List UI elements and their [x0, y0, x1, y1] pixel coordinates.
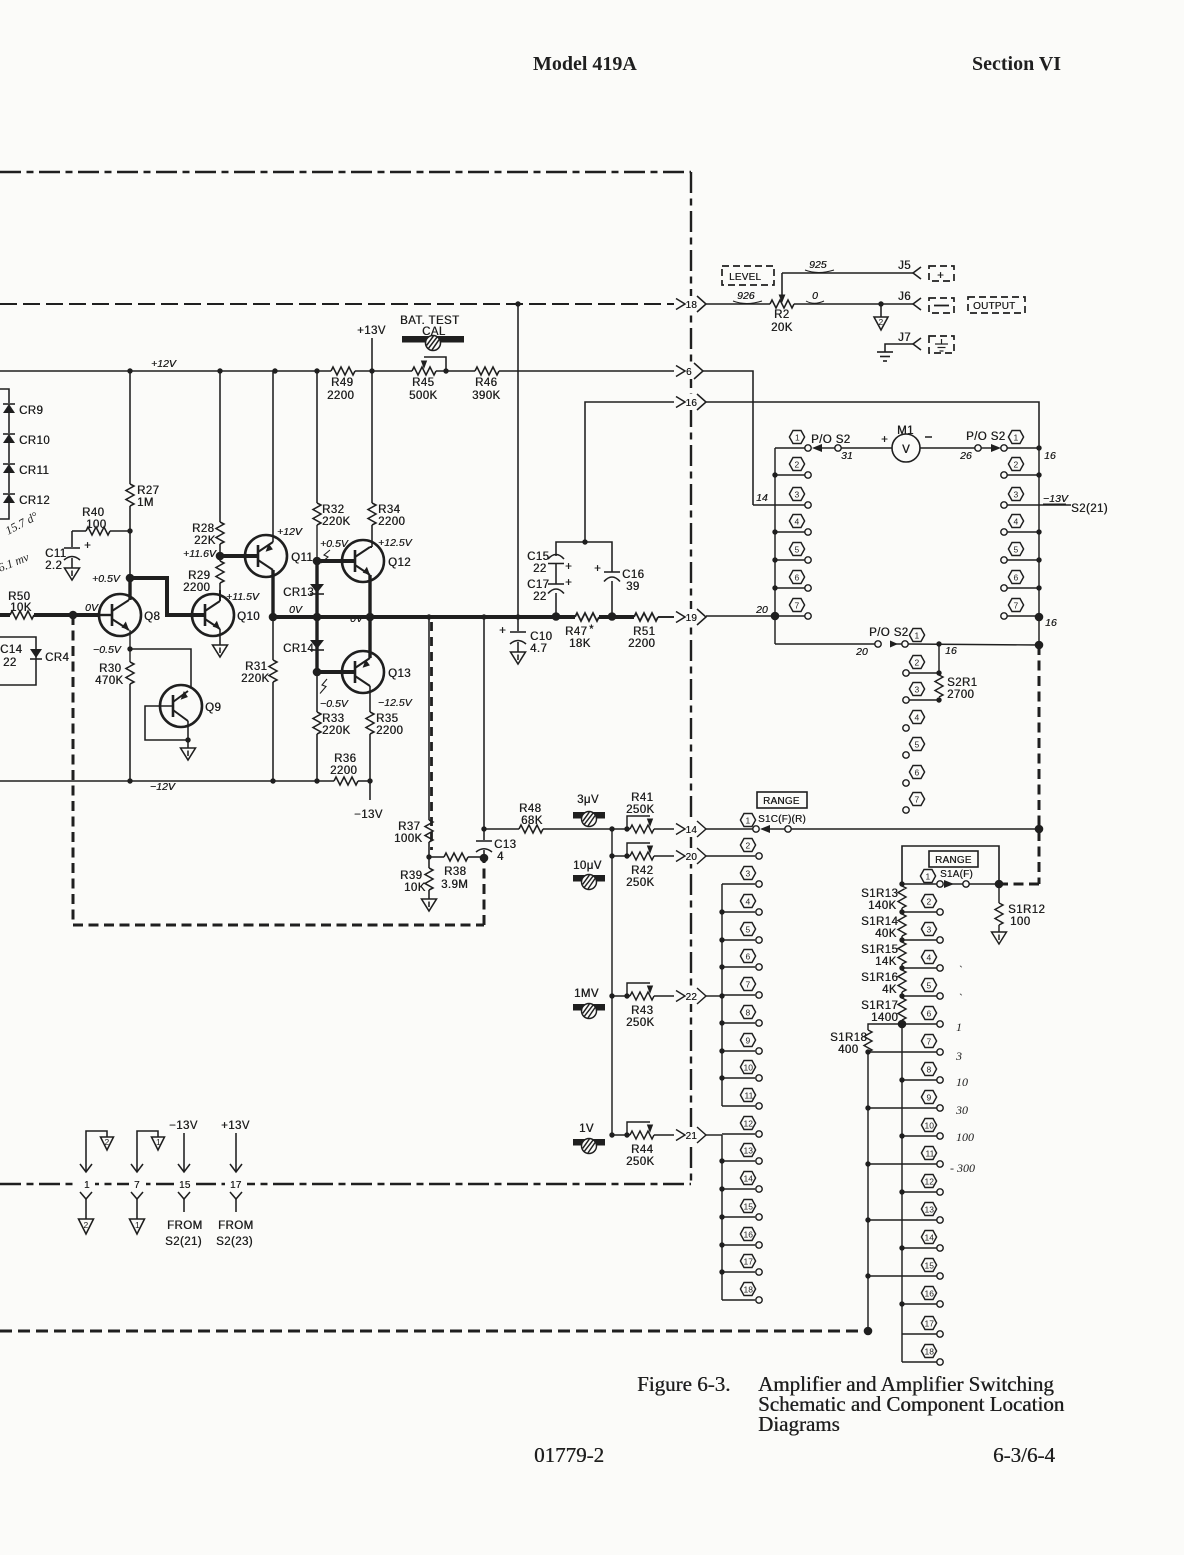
rail junction dots: [127, 368, 132, 373]
svg-text:2: 2: [105, 1137, 110, 1147]
svg-text:R34: R34: [378, 504, 401, 516]
connector 21: [676, 1127, 708, 1143]
svg-text:R28: R28: [192, 523, 214, 535]
svg-text:+13V: +13V: [357, 325, 386, 337]
row 16: [719, 1242, 724, 1247]
svg-text:+: +: [937, 270, 944, 282]
svg-text:+11.5V: +11.5V: [226, 591, 260, 603]
svg-text:+: +: [565, 577, 572, 589]
svg-text:4: 4: [915, 713, 920, 723]
svg-text:R51: R51: [633, 626, 655, 638]
ground: [422, 899, 437, 911]
row1 wire left: [775, 447, 805, 449]
svg-text:M1: M1: [897, 425, 914, 437]
connector 6: [676, 363, 708, 379]
svg-text:13: 13: [925, 1205, 935, 1215]
wiper arrow right: [981, 447, 992, 449]
svg-text:15: 15: [179, 1180, 191, 1191]
svg-text:17: 17: [230, 1180, 242, 1191]
node at 518,304: [515, 301, 520, 306]
svg-text:3: 3: [795, 490, 800, 500]
svg-text:30: 30: [955, 1103, 968, 1117]
svg-text:+: +: [881, 434, 888, 446]
wire conn18 to R2: [706, 303, 770, 305]
svg-text:4K: 4K: [882, 984, 897, 996]
wire thick Q8 collector to Q10 base: [130, 578, 184, 615]
svg-text:R44: R44: [631, 1144, 654, 1156]
svg-text:Q13: Q13: [388, 668, 411, 680]
resistor R47* 18K: [575, 613, 599, 621]
row 1 wiper: [706, 828, 753, 830]
svg-text:6: 6: [1014, 573, 1019, 583]
svg-text:16: 16: [1044, 450, 1056, 462]
row 5: [1001, 557, 1007, 563]
capacitor C13 4: [476, 840, 492, 842]
row 3 wire 14 from conn6: [753, 504, 805, 506]
svg-text:5: 5: [746, 925, 751, 935]
row 2: [706, 855, 755, 857]
svg-text:−13V: −13V: [1043, 493, 1069, 505]
svg-text:140K: 140K: [868, 900, 896, 912]
svg-text:3: 3: [955, 1049, 962, 1063]
bank vertical x=902 rows 6-18: [901, 1024, 903, 1362]
connector 19: [676, 609, 708, 625]
svg-text:925: 925: [809, 259, 827, 271]
wire: [0, 503, 9, 519]
row 5: [899, 993, 904, 998]
svg-text:Diagrams: Diagrams: [758, 1412, 840, 1436]
node Q12 base: [313, 557, 322, 566]
resistor S1R14 40K: [898, 914, 906, 936]
svg-text:390K: 390K: [472, 390, 500, 402]
svg-text:16: 16: [1045, 617, 1057, 629]
feedback loop wire: [145, 706, 188, 740]
terminal 7: [129, 1176, 146, 1191]
svg-text:4: 4: [497, 851, 504, 863]
transistor Q12: [342, 540, 384, 582]
svg-text:5: 5: [915, 740, 920, 750]
svg-text:22: 22: [533, 563, 547, 575]
svg-text:S2R1: S2R1: [947, 677, 977, 689]
Q11 emitter thick down to 0V bus: [271, 570, 274, 617]
resistor R50 10K: [8, 591, 32, 614]
svg-text:13: 13: [744, 1146, 754, 1156]
svg-text:Section VI: Section VI: [972, 53, 1061, 75]
svg-text:20: 20: [855, 646, 868, 658]
svg-text:100K: 100K: [394, 833, 422, 845]
resistor R30 470K: [126, 662, 134, 684]
resistor R48 68K: [484, 828, 519, 830]
svg-text:3: 3: [927, 925, 932, 935]
svg-text:17: 17: [925, 1319, 935, 1329]
svg-text:20: 20: [686, 852, 698, 863]
svg-text:C14: C14: [0, 644, 23, 656]
svg-text:10: 10: [925, 1121, 935, 1131]
svg-text:S1A(F): S1A(F): [940, 869, 973, 880]
svg-text:Q10: Q10: [237, 611, 260, 623]
svg-text:2.2: 2.2: [45, 560, 62, 572]
svg-text:S2(23): S2(23): [216, 1236, 253, 1248]
node +11.6V: [216, 552, 225, 561]
svg-text:6: 6: [927, 1009, 932, 1019]
wire dashed to conn 18: [0, 303, 674, 305]
row 8: [719, 1020, 724, 1025]
row 7: [1001, 613, 1007, 619]
svg-text:−13V: −13V: [354, 809, 383, 821]
svg-text:2200: 2200: [378, 516, 405, 528]
contact row 2: [909, 672, 939, 674]
row 3 wire -13V S2(21): [1001, 502, 1007, 508]
svg-text:18: 18: [744, 1285, 754, 1295]
svg-text:+: +: [594, 563, 601, 575]
svg-text:2: 2: [927, 897, 932, 907]
resistor R36 2200: [334, 777, 358, 785]
floating contacts 4-7: [903, 725, 909, 731]
capacitors C15/C17: [582, 539, 587, 544]
diode CR11: [3, 463, 15, 465]
svg-text:+: +: [499, 625, 506, 637]
svg-text:R32: R32: [322, 504, 344, 516]
svg-text:0: 0: [812, 290, 818, 302]
resistor R31 220K: [272, 617, 274, 660]
R46 390K: [475, 367, 499, 375]
svg-text:1MV: 1MV: [574, 988, 599, 1000]
row 7: [771, 612, 780, 621]
svg-text:R43: R43: [631, 1005, 653, 1017]
resistor R32 220K: [316, 371, 318, 503]
svg-text:R45: R45: [412, 377, 434, 389]
svg-text:−12V: −12V: [150, 781, 176, 793]
trimmer 3uV: [577, 794, 599, 806]
bank vertical x=722 rows 3-11: [721, 884, 723, 1106]
wire from -0.5V node to Q9: [130, 649, 191, 688]
row 6: [898, 1020, 907, 1029]
row 6: [1001, 585, 1007, 591]
row 3: [722, 883, 755, 885]
left bank bus: [774, 448, 776, 644]
potentiometer R2 20K: [770, 300, 794, 308]
svg-text:16: 16: [925, 1289, 935, 1299]
terminal 15: [174, 1176, 196, 1191]
node: [69, 611, 78, 620]
svg-text:01779-2: 01779-2: [534, 1443, 604, 1467]
svg-text:+12.5V: +12.5V: [378, 537, 413, 549]
connector J6: [898, 291, 911, 303]
wire bus to R37: [428, 617, 430, 820]
svg-text:39: 39: [626, 581, 640, 593]
diode CR10: [3, 433, 15, 435]
svg-text:16: 16: [945, 645, 957, 657]
wire to meter: [841, 447, 892, 449]
svg-text:CR4: CR4: [45, 652, 69, 664]
row 9: [865, 1105, 870, 1110]
svg-text:1M: 1M: [137, 497, 154, 509]
svg-text:250K: 250K: [626, 1017, 654, 1029]
left feed bus: [611, 829, 613, 1135]
row 7 joined to conn22: [719, 993, 724, 998]
svg-text:2: 2: [84, 1220, 89, 1230]
+13V feed: [357, 325, 386, 337]
thick dashed feed down right side: [1038, 645, 1041, 884]
row 4: [899, 965, 904, 970]
wire conn16 to right bus: [706, 402, 1039, 448]
svg-text:68K: 68K: [521, 815, 543, 827]
svg-text:100: 100: [86, 519, 106, 531]
svg-text:R41: R41: [631, 792, 653, 804]
Q10 collector node +11.5V: [219, 590, 221, 601]
svg-text:C16: C16: [622, 569, 644, 581]
svg-text:12: 12: [744, 1119, 754, 1129]
earth ground at J7: [877, 352, 893, 361]
svg-text:31: 31: [841, 450, 853, 462]
R41 250K rheostat: [609, 826, 614, 831]
svg-text:7: 7: [134, 1180, 140, 1191]
row 2: [899, 909, 904, 914]
svg-text:P/O S2: P/O S2: [966, 431, 1005, 443]
svg-text:C10: C10: [530, 631, 552, 643]
wire 925 to J5: [782, 272, 913, 274]
svg-text:P/O S2: P/O S2: [869, 627, 908, 639]
svg-text:6: 6: [795, 573, 800, 583]
row 11: [722, 1105, 755, 1107]
wire R27 column: [129, 371, 131, 484]
wire thick input: [34, 613, 99, 617]
svg-text:Q12: Q12: [388, 557, 411, 569]
svg-text:P/O S2: P/O S2: [811, 434, 850, 446]
svg-text:S1R13: S1R13: [861, 888, 898, 900]
svg-text:26: 26: [959, 450, 972, 462]
svg-text:3.9M: 3.9M: [441, 879, 468, 891]
row 3: [899, 937, 904, 942]
svg-text:20: 20: [755, 604, 768, 616]
wire left of conn16 with corner down to C15/C16: [585, 402, 674, 541]
svg-text:+11.6V: +11.6V: [183, 548, 217, 560]
R34 2200: [371, 371, 373, 503]
svg-text:16: 16: [744, 1230, 754, 1240]
svg-text:+12V: +12V: [151, 358, 177, 370]
svg-text:2200: 2200: [330, 765, 357, 777]
svg-text:R49: R49: [331, 377, 353, 389]
svg-text:R40: R40: [82, 507, 104, 519]
capacitor C11 2.2: [71, 531, 73, 547]
row 18: [902, 1361, 937, 1363]
row 12: [899, 1189, 904, 1194]
svg-text:9: 9: [746, 1036, 751, 1046]
trimmer 1MV: [574, 988, 599, 1000]
svg-text:40K: 40K: [875, 928, 897, 940]
S2R1 2700 column: [938, 644, 940, 675]
svg-text:CR12: CR12: [19, 495, 50, 507]
svg-text:C13: C13: [494, 839, 516, 851]
Q12 emitter thick to bus: [368, 575, 371, 617]
svg-text:S1R18: S1R18: [830, 1032, 867, 1044]
svg-text:22: 22: [686, 992, 698, 1003]
OUTPUT dashed box: [968, 297, 1025, 313]
wire Q8 emitter down: [129, 630, 131, 662]
svg-text:RANGE: RANGE: [935, 855, 972, 866]
RANGE label box: [757, 792, 807, 808]
terminal 17: [225, 1176, 247, 1191]
svg-text:20K: 20K: [771, 322, 793, 334]
resistor S1R15 14K: [898, 942, 906, 964]
svg-text:R27: R27: [137, 485, 159, 497]
svg-text:1: 1: [926, 872, 931, 882]
connector 22: [676, 988, 708, 1004]
row 2: [1001, 472, 1007, 478]
RANGE box 2 outer loop: [902, 846, 999, 884]
svg-text:`: `: [958, 963, 962, 977]
svg-text:4: 4: [927, 953, 932, 963]
svg-text:7: 7: [746, 980, 751, 990]
svg-text:Q11: Q11: [291, 552, 313, 564]
svg-text:2: 2: [795, 460, 800, 470]
row 13: [719, 1158, 724, 1163]
diode CR9: [3, 403, 15, 405]
Q13 collector thick to bus: [368, 617, 371, 658]
svg-text:+12V: +12V: [277, 526, 303, 538]
svg-text:4: 4: [746, 897, 751, 907]
ground: [65, 568, 80, 580]
svg-text:+: +: [84, 540, 91, 552]
wire bus down to R48 row: [483, 617, 485, 840]
svg-text:250K: 250K: [626, 1156, 654, 1168]
terminal 1: [78, 1176, 95, 1191]
svg-text:R30: R30: [99, 663, 121, 675]
trimmer 1V: [579, 1123, 594, 1135]
chassis dash-dot frame bottom: [0, 1183, 691, 1185]
svg-text:9: 9: [927, 1093, 932, 1103]
node +0.5V: [128, 578, 131, 600]
svg-text:- 300: - 300: [950, 1161, 975, 1175]
svg-text:5: 5: [1014, 545, 1019, 555]
svg-text:16: 16: [686, 398, 698, 409]
row 15: [719, 1214, 724, 1219]
svg-text:R36: R36: [334, 753, 356, 765]
row 17: [719, 1269, 724, 1274]
label 0: [812, 290, 818, 302]
svg-text:S1R16: S1R16: [861, 972, 898, 984]
row 6: [772, 585, 777, 590]
svg-text:220K: 220K: [241, 673, 269, 685]
svg-text:2: 2: [746, 841, 751, 851]
handwritten 6.1mv: [0, 550, 31, 575]
svg-text:2200: 2200: [183, 582, 210, 594]
row 10: [719, 1075, 724, 1080]
svg-text:1: 1: [795, 433, 800, 443]
row 14: [899, 1245, 904, 1250]
svg-text:10: 10: [744, 1063, 754, 1073]
chassis dash-dot frame right vertical: [690, 172, 692, 1184]
node J6 wire: [878, 301, 883, 306]
R42 250K rheostat: [609, 853, 614, 858]
chassis dash-dot frame top: [0, 171, 691, 173]
svg-text:0V: 0V: [350, 613, 364, 625]
svg-text:S1R14: S1R14: [861, 916, 898, 928]
svg-text:LEVEL: LEVEL: [729, 272, 761, 283]
svg-text:22: 22: [3, 657, 17, 669]
svg-text:J5: J5: [898, 260, 911, 272]
svg-text:R37: R37: [398, 821, 420, 833]
row 11: [865, 1161, 870, 1166]
svg-text:`: `: [958, 991, 962, 1005]
R43 250K rheostat: [609, 993, 614, 998]
svg-text:OUTPUT: OUTPUT: [973, 301, 1015, 312]
row 5: [719, 937, 724, 942]
svg-text:CR14: CR14: [283, 643, 314, 655]
svg-text:4.7: 4.7: [530, 643, 547, 655]
svg-text:−12.5V: −12.5V: [378, 697, 413, 709]
transistor Q13: [342, 651, 384, 693]
svg-text:1: 1: [84, 1180, 90, 1191]
bus junction dots: [426, 614, 431, 619]
svg-text:Figure 6-3.: Figure 6-3.: [637, 1372, 730, 1396]
svg-text:R38: R38: [444, 866, 466, 878]
svg-text:C15: C15: [527, 551, 549, 563]
svg-text:J7: J7: [898, 332, 911, 344]
svg-text:2200: 2200: [327, 390, 354, 402]
svg-text:S2(21): S2(21): [1071, 503, 1108, 515]
resistor R29 2200: [216, 561, 224, 583]
diode CR4: [30, 649, 42, 658]
svg-text:2: 2: [1014, 460, 1019, 470]
svg-text:0V: 0V: [85, 602, 99, 614]
svg-text:8: 8: [746, 1008, 751, 1018]
meter M1: [892, 434, 920, 462]
svg-text:R46: R46: [475, 377, 497, 389]
svg-text:2200: 2200: [628, 638, 655, 650]
svg-text:FROM: FROM: [167, 1220, 202, 1232]
trimmer 10uV: [573, 860, 602, 872]
resistor R35 2200: [366, 712, 374, 734]
svg-text:R42: R42: [631, 865, 653, 877]
svg-text:1: 1: [156, 1137, 161, 1147]
row 17: [902, 1333, 937, 1335]
svg-text:220K: 220K: [322, 516, 350, 528]
row 1 wiper: [899, 881, 904, 886]
svg-text:−0.5V: −0.5V: [93, 644, 122, 656]
bank vertical x=722 rows 12-18: [721, 1135, 723, 1300]
svg-text:2: 2: [915, 658, 920, 668]
row 4: [1001, 529, 1007, 535]
svg-text:250K: 250K: [626, 877, 654, 889]
svg-text:14: 14: [686, 825, 698, 836]
svg-text:14: 14: [925, 1233, 935, 1243]
row 7: [868, 1051, 937, 1053]
svg-text:2200: 2200: [376, 725, 403, 737]
svg-text:R2: R2: [774, 309, 790, 321]
svg-text:470K: 470K: [95, 675, 123, 687]
shield dashed edge: [430, 622, 433, 850]
svg-text:100: 100: [956, 1130, 974, 1144]
Q10 emitter to ground: [219, 629, 221, 645]
svg-text:10: 10: [956, 1075, 968, 1089]
resistor R28 22K: [219, 371, 221, 522]
svg-text:S1R17: S1R17: [861, 1000, 898, 1012]
svg-text:3: 3: [915, 685, 920, 695]
connector J7: [898, 332, 911, 344]
svg-text:3μV: 3μV: [577, 794, 599, 806]
svg-text:1: 1: [956, 1020, 962, 1034]
svg-text:+0.5V: +0.5V: [320, 538, 349, 550]
resistor S1R17 1400: [898, 998, 906, 1020]
svg-text:10μV: 10μV: [573, 860, 602, 872]
Q11 collector wire up to rail: [272, 371, 274, 542]
svg-text:18: 18: [925, 1347, 935, 1357]
R45 500K rheostat: [412, 367, 436, 375]
row 8: [899, 1077, 904, 1082]
thick wire +11.6V node to Q11 base: [220, 554, 258, 558]
svg-text:7: 7: [1014, 601, 1019, 611]
